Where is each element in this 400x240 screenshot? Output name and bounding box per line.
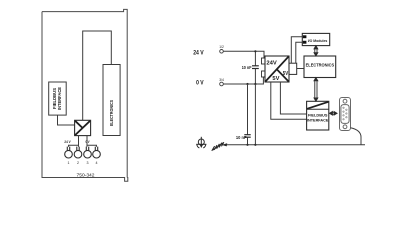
dc/dc converter 24V/5V bbox=[262, 56, 290, 82]
electronics block (left) bbox=[103, 65, 120, 136]
power jack contact 2 bbox=[74, 147, 82, 158]
svg-text:INTERFACE: INTERFACE bbox=[307, 117, 329, 122]
fieldbus interface block (left) bbox=[49, 82, 66, 115]
data bus arrow electronics - fieldbus interface bbox=[314, 78, 318, 102]
ELECTRONICS box (right) bbox=[304, 56, 336, 78]
svg-text:10 nF: 10 nF bbox=[242, 65, 252, 70]
wire 5V output to fieldbus interface (1) bbox=[271, 82, 307, 119]
input tab left lower bbox=[262, 71, 266, 77]
data bus arrow I/O modules - electronics bbox=[314, 46, 318, 56]
svg-text:1: 1 bbox=[68, 161, 70, 165]
svg-text:5V: 5V bbox=[272, 76, 280, 82]
svg-text:0 V: 0 V bbox=[196, 80, 204, 87]
svg-text:24 V: 24 V bbox=[193, 50, 204, 57]
output tab right of dc/dc bbox=[289, 63, 297, 74]
capacitor C2 10nF (0V to FE) bbox=[236, 84, 251, 145]
svg-text:24V: 24V bbox=[266, 61, 277, 67]
chassis ground symbol (hatched) bbox=[212, 142, 224, 151]
wire 0V to FE bus bbox=[254, 84, 256, 145]
wire 5V supply to I/O modules pin 2 bbox=[296, 42, 303, 63]
24V bus bar (jacks 1-2) bbox=[69, 145, 79, 147]
device outline 750-342 bbox=[42, 9, 128, 181]
svg-text:3/4: 3/4 bbox=[219, 78, 224, 82]
power jack contact 1 bbox=[65, 147, 73, 158]
svg-text:24 V: 24 V bbox=[64, 140, 71, 144]
equipotential bonding symbol bbox=[196, 137, 206, 148]
wire fieldbus interface to dc/dc converter bbox=[58, 115, 75, 125]
junction C2/bus bbox=[246, 144, 248, 146]
wire dc/dc to 24V jumper bar bbox=[78, 136, 80, 146]
dc/dc converter (left figure) bbox=[75, 120, 91, 135]
svg-text:2: 2 bbox=[77, 161, 79, 165]
wire 0V rail bbox=[223, 77, 264, 84]
arrowhead to chassis bbox=[222, 143, 228, 146]
wire dc/dc to 0V jumper bar bbox=[86, 136, 88, 146]
svg-text:1/2: 1/2 bbox=[219, 45, 224, 49]
capacitor C1 10nF (between 24V and 0V) bbox=[242, 51, 259, 84]
cable connector shield to FE bus bbox=[351, 128, 362, 145]
junction 0V line/bus bbox=[254, 144, 256, 146]
power jack contact 4 bbox=[93, 147, 101, 158]
FIELDBUS INTERFACE box (right) with isolation band bbox=[307, 101, 329, 130]
svg-text:3: 3 bbox=[87, 161, 89, 165]
wire 5V output to fieldbus interface (2) bbox=[280, 82, 306, 114]
I/O Modules box bbox=[302, 33, 329, 45]
svg-text:4: 4 bbox=[96, 161, 98, 165]
double arrow fieldbus interface - connector bbox=[329, 111, 337, 115]
wire 24V rail bbox=[223, 51, 264, 58]
junction 0V/C1 bbox=[254, 83, 256, 85]
wire dc/dc to electronics bbox=[297, 68, 304, 70]
junction 24V/C1 bbox=[254, 50, 256, 52]
D-sub fieldbus connector bbox=[340, 98, 351, 131]
svg-text:5V: 5V bbox=[283, 71, 289, 77]
svg-text:ELECTRONICS: ELECTRONICS bbox=[109, 100, 114, 126]
svg-text:INTERFACE: INTERFACE bbox=[57, 87, 62, 110]
wire dc/dc top loop to electronics bbox=[83, 31, 112, 120]
junction 0V/C2 bbox=[246, 83, 248, 85]
svg-text:0 V: 0 V bbox=[86, 140, 90, 144]
0V bus bar (jacks 3-4) bbox=[87, 145, 97, 147]
svg-text:750-342: 750-342 bbox=[77, 173, 96, 178]
svg-text:10 nF: 10 nF bbox=[236, 135, 247, 140]
svg-text:I/O Modules: I/O Modules bbox=[308, 38, 328, 43]
wire 5V supply to I/O modules pin 1 bbox=[291, 37, 302, 64]
power jack contact 3 bbox=[84, 147, 92, 158]
FE bus bbox=[226, 144, 365, 146]
input tab left upper bbox=[262, 58, 266, 64]
svg-text:ELECTRONICS: ELECTRONICS bbox=[306, 62, 335, 67]
